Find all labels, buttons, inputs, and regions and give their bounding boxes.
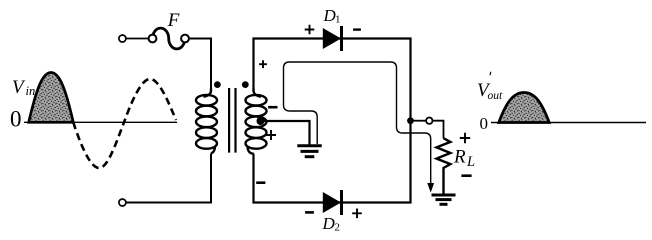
current path arrowhead (427, 183, 434, 193)
wire bottom terminal to primary bottom (126, 154, 211, 203)
polarity + (D1 anode) (305, 25, 315, 35)
svg-text:L: L (466, 154, 475, 170)
input axis (Vin) (24, 121, 177, 123)
wire terminal to fuse (126, 38, 149, 40)
terminal (bottom input) (119, 199, 126, 206)
diode D1 (323, 26, 342, 51)
Vin dashed cycle (73, 79, 176, 168)
svg-text:1: 1 (335, 14, 341, 26)
terminal (output) (426, 118, 432, 124)
transformer primary winding (196, 89, 217, 154)
Vin solid positive half-cycle (29, 73, 74, 123)
svg-text:in: in (26, 84, 36, 98)
resistor RL (437, 138, 451, 194)
label Vin (12, 77, 35, 98)
wire junction to output terminal (411, 120, 427, 122)
polarity + (RL top) (460, 133, 470, 143)
polarity + (secondary below tap) (266, 130, 276, 140)
phase dot secondary (242, 81, 249, 88)
svg-text:0: 0 (10, 107, 22, 132)
wire output terminal to RL (433, 121, 444, 139)
diode D2 (323, 190, 342, 215)
svg-text:D: D (322, 214, 336, 233)
polarity − (RL bottom) (461, 174, 471, 177)
svg-text:R: R (453, 147, 466, 168)
wire fuse to transformer primary top (189, 39, 211, 90)
label D2 (322, 214, 341, 234)
svg-text:out: out (488, 90, 504, 102)
output axis (Vout) (491, 122, 646, 124)
current path annotation wire (284, 62, 431, 184)
transformer core (229, 88, 235, 153)
svg-text:0: 0 (480, 114, 489, 133)
node output junction (407, 117, 414, 124)
svg-text:2: 2 (335, 222, 341, 234)
label Vout (477, 80, 503, 102)
label D1 (323, 6, 341, 26)
polarity − (D2 anode side) (305, 211, 314, 214)
terminal (top input) (119, 35, 126, 42)
polarity + (D2 cathode side) (352, 209, 362, 219)
ground (load) (432, 195, 456, 204)
ground (center tap) (297, 146, 321, 157)
polarity − (secondary above tap) (268, 106, 277, 109)
fuse F (149, 28, 189, 49)
center tap node (257, 117, 265, 125)
polarity − (D1 cathode) (353, 28, 361, 30)
polarity − (secondary bottom) (256, 181, 265, 184)
label RL (453, 147, 475, 171)
transformer secondary winding (246, 89, 267, 154)
wire center tap to ground (261, 121, 310, 145)
Vout half-cycle hump (499, 93, 549, 123)
svg-text:F: F (167, 10, 180, 31)
stray mark above Vout (489, 72, 492, 75)
phase dot primary (214, 81, 221, 88)
wire secondary top / top rail / right rail / bottom rail (rectifier loop) (254, 39, 411, 203)
polarity + (secondary top) (259, 60, 267, 68)
